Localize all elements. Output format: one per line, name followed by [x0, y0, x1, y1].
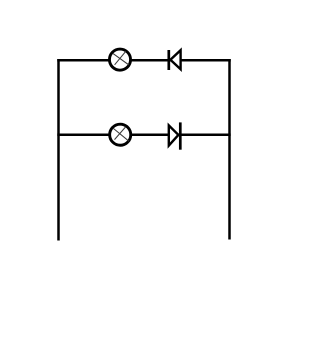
diode D1 (top branch, cathode left)	[169, 50, 181, 70]
wire: middle branch horizontal	[57, 133, 230, 136]
wire: left vertical rail	[57, 59, 60, 241]
wire: top branch horizontal	[57, 59, 231, 62]
wire: right vertical rail	[228, 59, 231, 240]
lamp E1 (top branch)	[109, 49, 130, 70]
lamp E2 (bottom branch)	[110, 124, 131, 145]
diode D2 (bottom branch, cathode right)	[169, 122, 181, 149]
